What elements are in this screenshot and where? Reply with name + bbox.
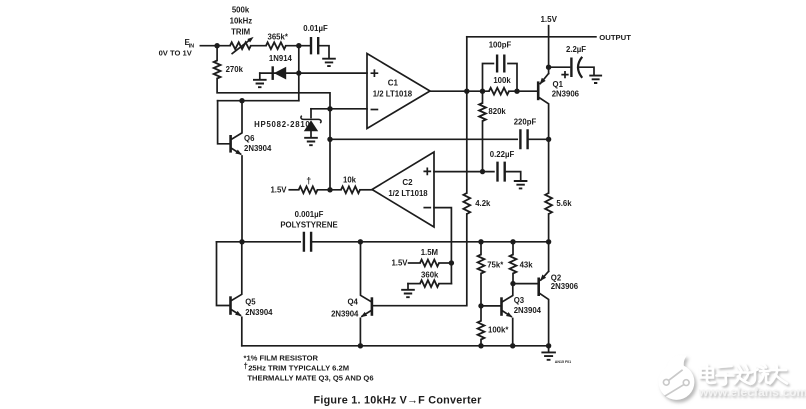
svg-text:†: † <box>244 362 248 371</box>
svg-text:THERMALLY MATE Q3, Q5 AND Q6: THERMALLY MATE Q3, Q5 AND Q6 <box>247 374 373 383</box>
svg-text:500k: 500k <box>232 6 250 15</box>
svg-text:100k*: 100k* <box>488 325 509 334</box>
svg-text:C2: C2 <box>402 178 413 187</box>
svg-text:0.001µF: 0.001µF <box>295 210 324 219</box>
svg-text:43k: 43k <box>520 261 534 270</box>
svg-text:1.5V: 1.5V <box>270 186 287 195</box>
svg-text:Q4: Q4 <box>347 297 358 306</box>
svg-text:1/2 LT1018: 1/2 LT1018 <box>388 189 428 198</box>
svg-text:www.elecfans.com: www.elecfans.com <box>698 385 806 399</box>
svg-text:2N3904: 2N3904 <box>514 306 542 315</box>
svg-text:1.5V: 1.5V <box>391 259 408 268</box>
svg-text:2N3906: 2N3906 <box>552 89 580 98</box>
svg-text:Q5: Q5 <box>245 298 256 307</box>
svg-text:1/2 LT1018: 1/2 LT1018 <box>373 89 413 98</box>
svg-text:OUTPUT: OUTPUT <box>599 33 631 42</box>
svg-text:1.5M: 1.5M <box>421 248 438 257</box>
svg-text:POLYSTYRENE: POLYSTYRENE <box>280 220 337 229</box>
svg-text:220pF: 220pF <box>514 118 537 127</box>
svg-text:25Hz TRIM TYPICALLY 6.2M: 25Hz TRIM TYPICALLY 6.2M <box>248 364 349 373</box>
svg-text:10k: 10k <box>343 175 357 184</box>
svg-text:100k: 100k <box>493 76 511 85</box>
svg-text:1.5V: 1.5V <box>540 15 557 24</box>
svg-text:360k: 360k <box>421 271 439 280</box>
svg-text:820k: 820k <box>488 107 506 116</box>
svg-text:5.6k: 5.6k <box>556 199 572 208</box>
svg-text:1N914: 1N914 <box>269 54 293 63</box>
svg-text:2N3904: 2N3904 <box>245 308 273 317</box>
svg-text:4.2k: 4.2k <box>475 199 491 208</box>
svg-text:C1: C1 <box>388 78 399 87</box>
svg-text:0.22µF: 0.22µF <box>490 150 515 159</box>
svg-text:270k: 270k <box>226 65 244 74</box>
svg-text:2N3904: 2N3904 <box>244 144 272 153</box>
svg-text:75k*: 75k* <box>487 261 504 270</box>
svg-text:0.01µF: 0.01µF <box>303 24 328 33</box>
svg-text:AN15 F01: AN15 F01 <box>555 360 571 364</box>
svg-text:Figure 1. 10kHz V→F Converter: Figure 1. 10kHz V→F Converter <box>313 395 482 407</box>
svg-text:0V TO 1V: 0V TO 1V <box>159 48 193 57</box>
svg-text:100pF: 100pF <box>489 41 512 50</box>
svg-text:Q1: Q1 <box>553 80 564 89</box>
svg-text:Q6: Q6 <box>244 134 255 143</box>
svg-text:2N3906: 2N3906 <box>551 282 579 291</box>
svg-text:10kHz: 10kHz <box>230 17 253 26</box>
svg-text:HP5082-2810: HP5082-2810 <box>254 120 310 129</box>
svg-text:365k*: 365k* <box>268 33 289 42</box>
svg-text:*1% FILM RESISTOR: *1% FILM RESISTOR <box>244 353 319 362</box>
svg-text:TRIM: TRIM <box>231 27 250 36</box>
svg-text:Q3: Q3 <box>514 296 525 305</box>
svg-text:2.2µF: 2.2µF <box>566 45 586 54</box>
svg-text:2N3904: 2N3904 <box>331 310 359 319</box>
svg-text:†: † <box>306 176 311 186</box>
